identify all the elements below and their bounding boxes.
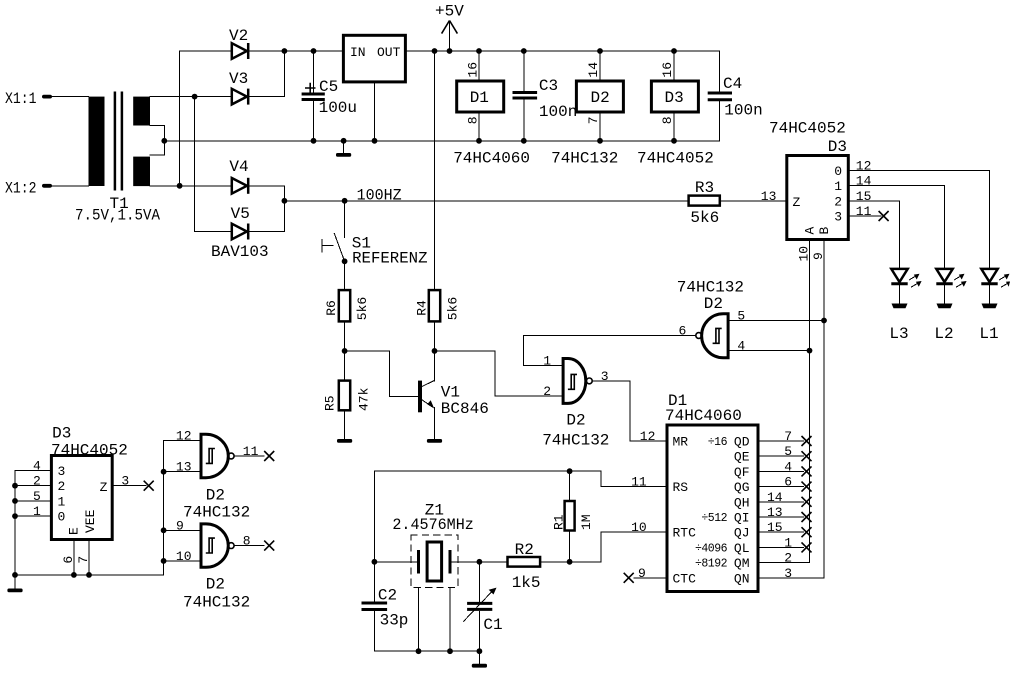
wire crystal case pin left	[418, 587, 420, 651]
svg-text:3: 3	[834, 210, 842, 225]
svg-text:74HC4060: 74HC4060	[665, 407, 742, 425]
diode V5	[211, 205, 269, 261]
svg-text:7.5V,1.5VA: 7.5V,1.5VA	[75, 207, 160, 225]
svg-text:QD: QD	[734, 435, 750, 450]
svg-text:RS: RS	[673, 480, 689, 495]
svg-text:IN: IN	[350, 45, 366, 60]
svg-text:MR: MR	[673, 435, 689, 450]
nand gate D2d 74HC132	[183, 524, 250, 611]
wire CTC open	[634, 577, 667, 579]
node C5 top junction	[311, 48, 317, 54]
wire mux pin0 to L1	[848, 170, 989, 269]
svg-text:100n: 100n	[539, 103, 577, 121]
node pin5 junction on B	[821, 318, 827, 324]
svg-text:BAV103: BAV103	[211, 243, 269, 261]
svg-text:3: 3	[784, 566, 792, 581]
wire riser V4 row to V2 input	[179, 51, 181, 186]
nand gate D2a 74HC132	[542, 359, 609, 450]
svg-text:6: 6	[784, 475, 792, 490]
svg-text:D2: D2	[704, 295, 723, 313]
wire pin4 to A line	[728, 350, 809, 352]
svg-text:2.4576MHz: 2.4576MHz	[392, 516, 473, 534]
wire C1 to ground	[478, 651, 480, 664]
node center tap junction	[161, 138, 167, 144]
wire gate output pin 11 open	[234, 455, 264, 457]
svg-text:X1:1: X1:1	[5, 90, 37, 108]
wire 100HZ net	[284, 187, 688, 205]
resistor R6 5k6	[324, 290, 370, 321]
wire R3 to mux Z pin 13	[720, 200, 787, 202]
wire mux pin3 open	[848, 215, 881, 217]
transistor V1 BC846	[418, 351, 489, 439]
svg-text:7: 7	[586, 116, 601, 124]
svg-text:QI: QI	[734, 511, 750, 526]
node V2/V3 junction	[282, 48, 288, 54]
node regulator ground junction	[372, 138, 378, 144]
node +5V stem junction	[447, 48, 453, 54]
svg-text:OUT: OUT	[377, 45, 401, 60]
node R1 bottom junction	[567, 559, 573, 565]
svg-text:X1:2: X1:2	[5, 180, 37, 198]
svg-text:2: 2	[58, 479, 66, 494]
svg-text:C2: C2	[378, 587, 397, 605]
wire pin5 to B line	[728, 320, 824, 322]
node pin10 junction	[161, 558, 167, 564]
node C1 bottom junction	[477, 648, 483, 654]
svg-text:4: 4	[784, 459, 792, 474]
svg-text:7: 7	[784, 429, 792, 444]
svg-text:D3: D3	[665, 89, 684, 107]
no-connect X QE	[802, 451, 812, 461]
svg-text:13: 13	[176, 460, 192, 475]
no-connect X QL	[802, 542, 812, 552]
svg-text:1: 1	[33, 504, 41, 519]
terminal X1:2	[5, 180, 52, 198]
svg-text:7: 7	[76, 556, 91, 564]
svg-text:C4: C4	[723, 75, 742, 93]
svg-text:B: B	[817, 227, 832, 235]
resistor R4 5k6	[415, 290, 461, 321]
svg-text:V4: V4	[229, 158, 248, 176]
wire secondary bottom to V4 row	[150, 185, 232, 187]
svg-text:10: 10	[176, 549, 192, 564]
svg-text:74HC4052: 74HC4052	[51, 441, 128, 459]
svg-text:100u: 100u	[319, 99, 357, 117]
svg-text:9: 9	[811, 252, 826, 260]
node D1 pin8 junction	[476, 138, 482, 144]
wire pin13 tap	[164, 471, 201, 473]
svg-text:R2: R2	[515, 541, 534, 559]
svg-text:14: 14	[586, 62, 601, 78]
switch S1 REFERENZ	[322, 201, 428, 268]
node junction riser at V3 row	[192, 94, 198, 100]
wire mux2 pin0 row	[15, 515, 51, 517]
node ground stem junction	[341, 138, 347, 144]
wire base jog	[345, 351, 418, 397]
node bus junction pin1	[12, 498, 18, 504]
power +5V symbol	[435, 3, 464, 52]
node C3 top junction	[521, 48, 527, 54]
nand gate D2c 74HC132	[183, 434, 250, 521]
wire crystal row to RTC pin 10	[570, 532, 667, 562]
node D1 pin16 junction	[476, 48, 482, 54]
svg-text:1: 1	[58, 494, 66, 509]
svg-text:Z: Z	[793, 195, 801, 210]
svg-text:Z: Z	[100, 480, 108, 495]
no-connect X QF	[802, 466, 812, 476]
svg-text:5k6: 5k6	[690, 209, 719, 227]
node case pin right junction	[447, 648, 453, 654]
wire oscillator top loop to RS pin 11	[374, 471, 667, 486]
svg-text:CTC: CTC	[673, 571, 697, 586]
wire R5 to ground	[344, 410, 346, 439]
wire mux pin A line to QM	[758, 240, 810, 563]
svg-text:15: 15	[767, 520, 783, 535]
no-connect X QD	[802, 436, 812, 446]
wire gate output pin 8 open	[234, 545, 264, 547]
transformer T1	[75, 92, 164, 225]
LED L3	[889, 269, 921, 343]
wire V4 output drop	[248, 186, 284, 201]
wire mux pin2 to L3	[848, 201, 899, 269]
svg-text:D3: D3	[52, 424, 71, 442]
node D3 pin16 junction	[671, 48, 677, 54]
wire crystal case pin right	[449, 587, 451, 651]
wire QL open	[758, 546, 804, 548]
svg-text:11: 11	[243, 444, 259, 459]
svg-text:3: 3	[58, 464, 66, 479]
wire R2 to R1 bottom node	[540, 561, 570, 563]
wire V2 input	[180, 50, 232, 52]
svg-text:QH: QH	[734, 495, 750, 510]
no-connect X mux pin3	[879, 211, 889, 221]
svg-text:0: 0	[58, 510, 66, 525]
svg-text:+5V: +5V	[435, 3, 464, 21]
wire mux pin1 to L2	[848, 186, 944, 269]
IC D3 74HC4052 lower mux	[51, 424, 128, 539]
svg-text:14: 14	[856, 174, 872, 189]
node R4 drop junction	[432, 48, 438, 54]
resistor R1 1M	[552, 471, 595, 562]
node VEE junction rail	[86, 572, 92, 578]
no-connect X QG	[802, 482, 812, 492]
wire collector to NAND pin2	[435, 351, 564, 396]
no-connect X pin 11	[264, 451, 274, 461]
svg-text:12: 12	[640, 429, 656, 444]
svg-text:÷8192: ÷8192	[695, 558, 728, 571]
svg-text:6: 6	[679, 324, 687, 339]
svg-text:QJ: QJ	[734, 526, 750, 541]
ground bottom left	[7, 575, 22, 592]
node E junction rail	[71, 572, 77, 578]
diode V4	[229, 158, 248, 194]
node junction riser at V4 row	[177, 183, 183, 189]
svg-text:5: 5	[33, 489, 41, 504]
wire R4 to collector node	[434, 321, 436, 351]
wire X1:1 to transformer	[52, 96, 89, 98]
svg-text:74HC4060: 74HC4060	[453, 150, 530, 168]
capacitor C3	[513, 51, 578, 141]
svg-text:QN: QN	[734, 571, 750, 586]
svg-text:74HC132: 74HC132	[183, 593, 250, 611]
svg-text:4: 4	[737, 339, 745, 354]
svg-text:3: 3	[601, 369, 609, 384]
wire E pin 6 stub	[73, 540, 75, 575]
wire QD open	[758, 440, 804, 442]
IC D1 74HC4060 binary counter	[665, 392, 758, 592]
svg-text:5: 5	[737, 309, 745, 324]
wire V5 input	[195, 231, 232, 233]
svg-text:74HC4052: 74HC4052	[637, 150, 714, 168]
nand gate D2b 74HC132 mirrored	[677, 278, 744, 357]
ground below V1 emitter	[427, 439, 442, 443]
diode V2	[229, 27, 248, 59]
wire crystal right to R2	[452, 561, 508, 563]
svg-text:QL: QL	[734, 541, 750, 556]
wire OUT to +5V rail	[405, 50, 719, 52]
svg-text:33p: 33p	[380, 612, 409, 630]
wire QH open	[758, 501, 804, 503]
svg-text:D2: D2	[206, 576, 225, 594]
node D2 pin7 junction	[597, 138, 603, 144]
node pin4 junction on A	[807, 348, 813, 354]
svg-text:2: 2	[834, 194, 842, 209]
no-connect X QJ	[802, 527, 812, 537]
no-connect X CTC	[624, 573, 634, 583]
node pin13 junction	[161, 469, 167, 475]
svg-text:14: 14	[767, 490, 783, 505]
diode V3	[229, 70, 248, 105]
node crystal left junction	[372, 559, 378, 565]
IC D3 74HC4052 analog mux	[769, 120, 848, 240]
wire crystal left	[374, 561, 417, 563]
svg-text:1k5: 1k5	[512, 574, 541, 592]
svg-text:74HC132: 74HC132	[542, 432, 609, 450]
wire QJ open	[758, 531, 804, 533]
svg-text:R1: R1	[552, 514, 567, 530]
svg-text:V1: V1	[441, 383, 460, 401]
svg-text:QM: QM	[734, 556, 750, 571]
svg-text:5k6: 5k6	[355, 297, 370, 320]
node bus junction pin0	[12, 513, 18, 519]
svg-text:QF: QF	[734, 465, 750, 480]
svg-text:11: 11	[856, 204, 872, 219]
wire X1:2 to transformer	[52, 185, 89, 187]
svg-text:÷4096: ÷4096	[695, 542, 728, 555]
wire center tap to ground rail	[164, 140, 719, 142]
wire V5 output rise	[248, 201, 284, 232]
svg-text:1: 1	[834, 179, 842, 194]
svg-text:0: 0	[834, 164, 842, 179]
wire S1 to R6	[344, 261, 346, 290]
svg-text:16: 16	[465, 62, 480, 78]
svg-text:VEE: VEE	[83, 509, 98, 533]
svg-text:L2: L2	[934, 325, 953, 343]
ground below C5 rail	[336, 141, 351, 157]
wire QI open	[758, 516, 804, 518]
svg-text:RTC: RTC	[673, 526, 697, 541]
wire mux2 Z output pin 3 open	[112, 485, 146, 487]
wire regulator ground pin	[374, 82, 376, 141]
no-connect X QH	[802, 497, 812, 507]
wire secondary top to V3 row	[150, 96, 232, 98]
wire QE open	[758, 455, 804, 457]
ground below R5	[337, 439, 352, 443]
capacitor C5	[302, 51, 357, 141]
svg-text:47k: 47k	[357, 387, 372, 411]
crystal Z1 2.4576MHz	[392, 502, 473, 588]
wire mux2 pin1 row	[15, 500, 51, 502]
wire R6 to base node	[344, 321, 346, 380]
svg-text:5k6: 5k6	[446, 297, 461, 320]
svg-text:74HC132: 74HC132	[677, 278, 744, 296]
wire rail to regulator IN	[284, 50, 343, 52]
no-connect X QI	[802, 512, 812, 522]
svg-text:R5: R5	[323, 395, 338, 411]
svg-text:E: E	[67, 527, 82, 535]
node C5 bottom junction	[311, 138, 317, 144]
svg-text:100HZ: 100HZ	[357, 187, 402, 205]
IC D1 bypass block 74HC4060	[453, 51, 530, 168]
svg-text:D2: D2	[591, 89, 610, 107]
svg-text:C5: C5	[319, 78, 338, 96]
svg-text:2: 2	[784, 551, 792, 566]
svg-text:12: 12	[176, 428, 192, 443]
IC D2 bypass block 74HC132	[551, 51, 623, 168]
LED L2	[934, 269, 966, 343]
no-connect X mux2 Z	[144, 481, 154, 491]
wire NAND output to D1 MR	[592, 381, 667, 441]
svg-text:R4: R4	[415, 300, 430, 316]
svg-text:11: 11	[631, 475, 647, 490]
svg-text:2: 2	[543, 384, 551, 399]
wire V2 output	[248, 50, 284, 52]
svg-text:1: 1	[543, 354, 551, 369]
svg-text:8: 8	[243, 534, 251, 549]
node R1 top junction	[567, 468, 573, 474]
wire pin10 tap	[164, 560, 201, 562]
svg-text:D2: D2	[566, 412, 585, 430]
capacitor C2 33p	[362, 471, 409, 651]
wire QG open	[758, 486, 804, 488]
wire left bus vertical	[14, 471, 16, 575]
no-connect X pin 8	[264, 541, 274, 551]
svg-text:D2: D2	[206, 487, 225, 505]
svg-text:6: 6	[61, 556, 76, 564]
svg-text:15: 15	[856, 189, 872, 204]
node C3 bottom junction	[521, 138, 527, 144]
svg-text:5: 5	[784, 444, 792, 459]
svg-text:÷16: ÷16	[708, 436, 728, 449]
resistor R2 1k5	[508, 541, 541, 592]
svg-text:1M: 1M	[579, 514, 594, 530]
wire bottom rail to gate bus	[15, 440, 201, 575]
svg-text:8: 8	[660, 116, 675, 124]
svg-text:V3: V3	[229, 70, 248, 88]
svg-text:10: 10	[631, 520, 647, 535]
LED L1	[979, 269, 1010, 343]
svg-text:16: 16	[660, 62, 675, 78]
capacitor C4	[708, 51, 763, 141]
wire QF open	[758, 470, 804, 472]
svg-text:D3: D3	[828, 138, 847, 156]
svg-text:13: 13	[767, 505, 783, 520]
node D2 pin14 junction	[597, 48, 603, 54]
svg-text:2: 2	[33, 474, 41, 489]
svg-text:12: 12	[856, 158, 872, 173]
svg-text:3: 3	[121, 474, 129, 489]
svg-text:L3: L3	[889, 325, 908, 343]
node S1 tap junction on 100HZ	[342, 198, 348, 204]
wire mux pin B line to QN	[758, 240, 824, 578]
svg-text:V2: V2	[229, 27, 248, 45]
svg-text:R6: R6	[324, 300, 339, 316]
node D3 pin8 junction	[671, 138, 677, 144]
node 100HZ junction	[282, 198, 288, 204]
svg-text:D1: D1	[470, 89, 489, 107]
svg-text:QG: QG	[734, 480, 750, 495]
wire mux2 pin3 row	[15, 470, 51, 472]
svg-text:REFERENZ: REFERENZ	[352, 250, 428, 268]
IC D3 bypass block 74HC4052	[637, 51, 714, 168]
svg-text:10: 10	[797, 246, 812, 262]
wire oscillator bottom loop	[374, 650, 479, 652]
wire V3 output riser	[248, 51, 284, 97]
svg-text:V5: V5	[231, 205, 250, 223]
node collector junction	[432, 348, 438, 354]
wire VEE pin 7 stub	[88, 540, 90, 575]
wire pin9 tap	[164, 529, 201, 531]
voltage regulator U1 IN/OUT	[343, 35, 405, 82]
ground below C1	[472, 664, 487, 668]
terminal X1:1	[5, 90, 52, 108]
svg-text:9: 9	[638, 566, 646, 581]
wire NAND pin1 from gate D2b output	[524, 336, 696, 366]
svg-text:74HC4052: 74HC4052	[769, 120, 846, 138]
node R6/R5/base junction	[342, 348, 348, 354]
node bus junction rail	[12, 572, 18, 578]
svg-text:L1: L1	[979, 325, 998, 343]
wire mux2 pin2 row	[15, 485, 51, 487]
trimmer capacitor C1	[464, 562, 503, 651]
svg-text:C1: C1	[483, 616, 502, 634]
svg-text:C3: C3	[539, 77, 558, 95]
svg-text:13: 13	[761, 189, 777, 204]
svg-text:BC846: BC846	[441, 400, 489, 418]
node case pin left junction	[416, 648, 422, 654]
wire riser V3 row to V5 input	[194, 97, 196, 232]
resistor R3 5k6	[689, 179, 720, 227]
svg-text:1: 1	[784, 535, 792, 550]
node pin9 junction	[161, 527, 167, 533]
svg-text:A: A	[803, 227, 818, 235]
svg-text:R3: R3	[695, 179, 714, 197]
node bus junction pin2	[12, 483, 18, 489]
node C1 top junction	[477, 559, 483, 565]
resistor R5 47k	[323, 381, 372, 411]
wire +5V drop to R4	[434, 51, 436, 290]
svg-text:9: 9	[176, 518, 184, 533]
svg-text:÷512: ÷512	[701, 512, 727, 525]
svg-text:8: 8	[465, 116, 480, 124]
svg-text:100n: 100n	[724, 102, 762, 120]
svg-text:QE: QE	[734, 450, 750, 465]
svg-text:74HC132: 74HC132	[183, 504, 250, 522]
svg-text:4: 4	[33, 459, 41, 474]
svg-text:74HC132: 74HC132	[551, 150, 618, 168]
